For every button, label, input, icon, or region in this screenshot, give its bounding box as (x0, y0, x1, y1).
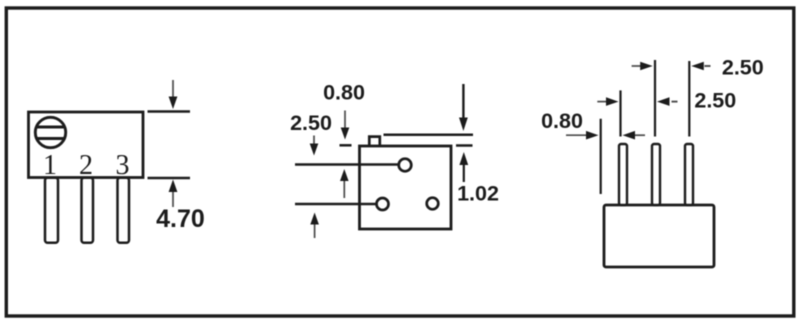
leg 2 (82, 178, 94, 243)
svg-text:1.02: 1.02 (457, 182, 499, 206)
svg-text:2.50: 2.50 (722, 56, 764, 80)
side view pin 1 (619, 144, 627, 205)
adjustment screw circle (35, 117, 65, 147)
pin number 1 (43, 150, 57, 181)
label 2.50 (hole spacing) (290, 111, 332, 135)
screw slot upper line (37, 126, 64, 129)
pin number 2 (79, 150, 93, 181)
svg-text:0.80: 0.80 (541, 109, 583, 133)
bottom extension line (148, 177, 191, 179)
hole pin 3 (bottom right) (427, 198, 439, 210)
hole pin 2 (bottom left) (377, 198, 389, 210)
arrow left toward pin3 centerline (row 1) (691, 62, 710, 71)
svg-text:2: 2 (79, 150, 93, 181)
up arrow to body bottom line (169, 180, 178, 208)
down arrow to body top line (169, 80, 178, 109)
side view: body outline (604, 205, 714, 267)
side view pin 3 (685, 144, 693, 205)
centerline through top hole (295, 163, 399, 165)
dimension label 4.70 (156, 205, 205, 233)
arrow right toward pin1 centerline (row 2) (597, 97, 618, 106)
arrow left toward pin2 centerline (row 2) (657, 97, 678, 106)
extension line left of pin 1 (600, 119, 602, 194)
svg-text:2.50: 2.50 (694, 89, 736, 113)
svg-text:3: 3 (116, 150, 130, 181)
label 2.50 (pins 2-3) (722, 56, 764, 80)
tab top reference line extending right (384, 134, 474, 137)
pin 1 centerline (619, 90, 621, 136)
arrow right toward left extension line (566, 131, 599, 140)
hole pin 1 (top) (399, 159, 412, 172)
pin number 3 (116, 150, 130, 181)
up arrow below lower centerline (310, 213, 319, 239)
up arrow to body top line (1.02) (459, 152, 468, 182)
label 0.80 (tab) (323, 81, 365, 105)
label 1.02 (457, 182, 499, 206)
up arrow between centerlines (340, 169, 349, 198)
front view: trimmer body outline (29, 112, 144, 178)
pin 3 centerline (688, 61, 690, 137)
down arrow under 0.80 (341, 111, 350, 140)
top extension line (148, 110, 191, 112)
label 0.80 (pin width) (541, 109, 583, 133)
long down arrow to tab top line (459, 84, 468, 131)
leg 1 (45, 178, 58, 243)
screw slot lower line (38, 137, 64, 140)
svg-text:1: 1 (43, 150, 57, 181)
svg-text:2.50: 2.50 (290, 111, 332, 135)
label 2.50 (pins 1-2) (694, 89, 736, 113)
svg-text:0.80: 0.80 (323, 81, 365, 105)
centerline through bottom-left hole (295, 203, 376, 205)
bottom view: body outline (360, 146, 452, 229)
body top short reference line (right) (456, 144, 473, 147)
down arrow under 2.50 (310, 136, 319, 156)
body top tick left of tab (340, 144, 352, 147)
arrow right toward pin2 centerline (row 1) (632, 62, 653, 71)
leg 3 (118, 178, 130, 243)
tab on top edge (369, 137, 380, 146)
svg-text:4.70: 4.70 (156, 205, 205, 233)
pin 2 centerline (654, 60, 656, 137)
side view pin 2 (652, 144, 660, 205)
arrow left toward pin1 centerline (623, 131, 646, 140)
